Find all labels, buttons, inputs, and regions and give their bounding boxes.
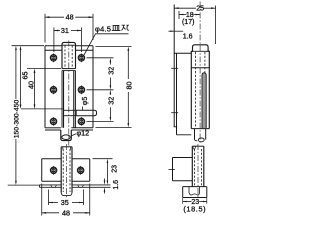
svg-text:150·300·450: 150·300·450 [13,100,20,139]
svg-text:25: 25 [196,6,204,13]
svg-text:35: 35 [61,198,69,207]
svg-text:φ12: φ12 [77,128,90,137]
svg-text:48: 48 [62,208,70,217]
svg-text:80: 80 [124,82,133,90]
svg-text:φ5: φ5 [82,97,89,106]
svg-text:32: 32 [106,97,115,105]
svg-text:31: 31 [61,26,69,35]
svg-text:23: 23 [111,165,118,173]
svg-text:18: 18 [186,12,194,19]
svg-text:48: 48 [66,12,74,21]
svg-text:32: 32 [106,67,115,75]
svg-text:65: 65 [20,72,29,80]
svg-text:(17): (17) [182,19,194,26]
svg-text:1.6: 1.6 [183,34,193,41]
svg-text:40: 40 [27,81,36,89]
svg-text:1.6: 1.6 [113,180,120,190]
svg-text:(18.5): (18.5) [183,204,206,213]
svg-text:φ4.5: φ4.5 [95,24,111,33]
